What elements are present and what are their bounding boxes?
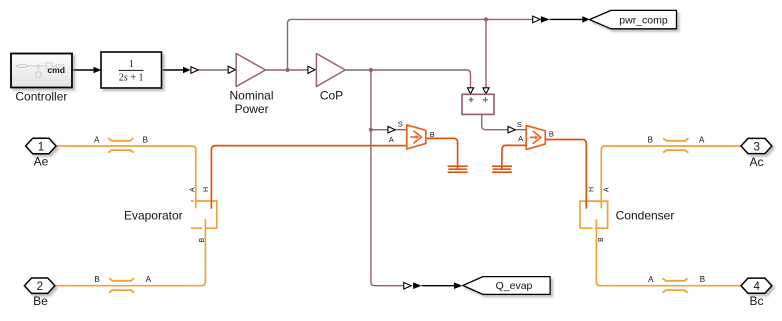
svg-text:B: B xyxy=(430,130,435,139)
svg-text:Q_evap: Q_evap xyxy=(496,280,533,292)
svg-text:Condenser: Condenser xyxy=(616,209,675,223)
svg-text:B: B xyxy=(598,237,605,242)
svg-text:1: 1 xyxy=(129,59,134,70)
svg-text:H: H xyxy=(203,187,210,192)
svg-text:Power: Power xyxy=(235,102,269,116)
svg-text:Controller: Controller xyxy=(15,90,67,104)
svg-text:S: S xyxy=(398,120,403,129)
svg-text:pwr_comp: pwr_comp xyxy=(619,14,668,26)
svg-text:Be: Be xyxy=(33,294,48,308)
svg-text:B: B xyxy=(94,275,99,284)
svg-text:Bc: Bc xyxy=(749,294,763,308)
svg-text:CoP: CoP xyxy=(320,88,343,102)
svg-text:Nominal: Nominal xyxy=(229,88,273,102)
svg-text:A: A xyxy=(389,135,394,144)
svg-text:cmd: cmd xyxy=(47,65,65,75)
svg-text:B: B xyxy=(143,135,148,144)
svg-text:A: A xyxy=(94,135,100,144)
svg-text:Ae: Ae xyxy=(34,155,49,169)
svg-text:B: B xyxy=(199,238,206,243)
svg-text:S: S xyxy=(517,120,522,129)
svg-text:A: A xyxy=(146,275,152,284)
svg-text:2: 2 xyxy=(37,281,43,293)
svg-text:Ac: Ac xyxy=(749,155,763,169)
svg-text:4: 4 xyxy=(753,281,760,293)
svg-text:A: A xyxy=(518,134,523,143)
svg-text:A: A xyxy=(190,187,197,192)
svg-text:2s + 1: 2s + 1 xyxy=(119,72,144,83)
svg-text:A: A xyxy=(648,275,654,284)
svg-text:A: A xyxy=(603,187,610,192)
svg-text:Evaporator: Evaporator xyxy=(124,209,183,223)
svg-text:H: H xyxy=(588,187,595,192)
svg-text:B: B xyxy=(700,275,705,284)
svg-text:1: 1 xyxy=(38,141,44,153)
svg-text:B: B xyxy=(648,135,653,144)
svg-text:3: 3 xyxy=(753,141,759,153)
svg-text:A: A xyxy=(699,135,705,144)
svg-text:B: B xyxy=(549,130,554,139)
